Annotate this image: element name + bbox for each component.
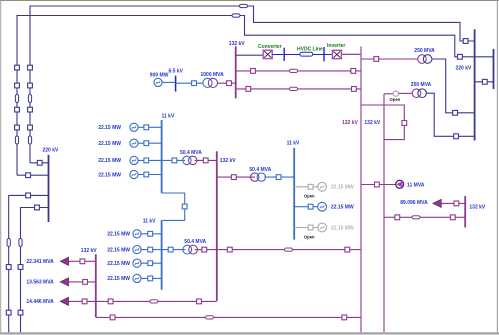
breaker line C at left 220kV bus: [26, 193, 31, 198]
svg-text:11 kV: 11 kV: [143, 218, 156, 224]
breaker bottom west: [110, 315, 115, 320]
breaker line A mid 1: [28, 107, 33, 112]
wire 220kV line D: [21, 208, 49, 333]
svg-text:22.15 MW: 22.15 MW: [107, 247, 130, 253]
svg-text:220 kV: 220 kV: [43, 148, 60, 154]
generator group1 unit 2 22.15 MW: [98, 139, 161, 147]
wire line2 to right bus: [384, 216, 465, 218]
breaker right load: [454, 201, 459, 206]
wire gen to 6.5kV bus: [162, 81, 176, 83]
bottom frame bar: [0, 332, 499, 334]
wire group1 bus to group2 bus: [162, 193, 185, 220]
breaker line B mid 2: [15, 125, 20, 130]
transformer T3 250 MVA: [412, 89, 426, 98]
wire line B to left 220kV bus: [17, 174, 49, 176]
breaker tie loop: [402, 121, 407, 126]
bus 132kV load: [95, 254, 97, 317]
svg-text:11 kV: 11 kV: [162, 114, 175, 120]
wire load bus to center bus: [96, 300, 217, 302]
generator group1 unit 3 22.15 MW: [98, 156, 161, 164]
breaker line D mid: [18, 265, 23, 270]
bus 11kV group1: [161, 120, 163, 193]
breaker gen step-up hv: [227, 81, 232, 86]
breaker T2 lv: [374, 57, 379, 62]
svg-text:Open: Open: [304, 194, 315, 199]
svg-text:Open: Open: [390, 97, 401, 102]
breaker T3 hv: [454, 134, 459, 139]
line symbol line B horizontal: [232, 14, 240, 17]
line symbol P1: [290, 69, 298, 72]
generator group2 unit 1 22.15 MW: [107, 230, 161, 238]
breaker line B at right 220kV bus: [458, 54, 463, 59]
transformer T6 50.4 MVA: [251, 173, 266, 181]
svg-text:22.15 MW: 22.15 MW: [98, 125, 121, 131]
wire T6 to 11kV bus3: [264, 176, 294, 178]
svg-text:22.15 MW: 22.15 MW: [331, 185, 354, 191]
border frame: [0, 0, 499, 2]
node HVDC right tick: [323, 47, 325, 61]
wire right bus load: [441, 202, 465, 204]
line symbol bottom: [206, 316, 214, 319]
svg-text:50.4 MVA: 50.4 MVA: [184, 239, 206, 245]
svg-text:22.15 MW: 22.15 MW: [331, 205, 354, 211]
breaker P2 left: [246, 87, 251, 92]
svg-text:132 kV: 132 kV: [220, 158, 237, 164]
wire 132kV line2 vertical: [383, 94, 385, 332]
svg-text:22.15 MW: 22.15 MW: [107, 276, 130, 282]
breaker gen step-up lv: [192, 81, 197, 86]
breaker T4 hv: [203, 158, 208, 163]
wire 220kV line C: [9, 195, 49, 332]
svg-text:Open: Open: [304, 235, 315, 240]
svg-text:13.563 MVA: 13.563 MVA: [26, 280, 54, 286]
svg-text:250 MVA: 250 MVA: [414, 48, 435, 54]
generator group3 unit3 22.15 MW open: [294, 223, 354, 232]
svg-text:220 kV: 220 kV: [456, 66, 473, 72]
generator group2 unit 2 22.15 MW: [107, 246, 161, 254]
transformer T1 1000 MVA: [203, 78, 218, 87]
line symbol load-center: [150, 300, 158, 303]
breaker T6 hv: [231, 175, 236, 180]
breaker line D at left 220kV bus: [35, 205, 40, 210]
wire 132kV parallel line P2: [236, 88, 361, 90]
line symbol line B lower: [15, 136, 18, 144]
wire T2 to 220kV bus: [432, 59, 475, 113]
svg-text:Converter: Converter: [258, 44, 282, 50]
line symbol feeder east: [285, 248, 293, 251]
bus 220kV right second: [493, 49, 495, 89]
svg-text:132 kV: 132 kV: [469, 204, 486, 210]
svg-text:HVDC Line: HVDC Line: [297, 46, 323, 52]
svg-text:22.341 MVA: 22.341 MVA: [26, 259, 54, 265]
wire load bus to line1 bottom: [96, 316, 361, 318]
svg-text:14.446 MVA: 14.446 MVA: [26, 299, 54, 305]
wire line A to left 220kV bus: [30, 162, 49, 164]
line symbol line A horizontal: [240, 4, 248, 7]
load 89.096 MVA arrow: [433, 199, 441, 207]
wire group2 bus to T5: [162, 249, 186, 251]
line symbol line C: [7, 239, 10, 247]
wire HVDC dc right: [313, 54, 333, 56]
svg-text:11 kV: 11 kV: [287, 141, 300, 147]
breaker load-center 2: [197, 299, 202, 304]
wire transformer to 132kV bus: [218, 82, 236, 84]
wire 220kV line B path: [17, 16, 494, 176]
converter U1: [263, 50, 272, 58]
transformer T4 50.4 MVA: [183, 156, 197, 164]
wire inverter to 132kV line1: [342, 53, 362, 55]
condenser 11 MVA: [396, 180, 404, 188]
svg-text:50.4 MVA: 50.4 MVA: [180, 150, 202, 156]
bus 11kV group2: [161, 220, 163, 289]
load 22.341 MVA: [26, 257, 95, 265]
svg-text:22.15 MW: 22.15 MW: [107, 261, 130, 267]
line symbol line B upper: [15, 95, 18, 103]
breaker T2 hv: [453, 110, 458, 115]
breaker P1 right: [351, 69, 356, 74]
svg-text:11 MVA: 11 MVA: [407, 182, 425, 188]
wire bus tie: [475, 81, 494, 83]
breaker line A at left 220kV bus: [37, 160, 42, 165]
generator group2 unit 3 22.15 MW: [107, 259, 161, 267]
line symbol line D: [19, 239, 22, 247]
svg-text:22.15 MW: 22.15 MW: [98, 141, 121, 147]
wire T3 to 220kV bus: [426, 93, 474, 136]
svg-text:132 kV: 132 kV: [364, 120, 381, 126]
bus 6.5 kV: [175, 76, 177, 92]
breaker P1 left: [251, 69, 256, 74]
breaker T4 lv: [172, 158, 177, 163]
breaker right feeder west: [395, 215, 400, 220]
breaker bottom east: [342, 315, 347, 320]
wire open switch to T3: [399, 92, 413, 94]
breaker T5 hv: [202, 247, 207, 252]
breaker T5 lv: [168, 247, 173, 252]
svg-text:22.15 MW: 22.15 MW: [107, 232, 130, 238]
wire bus2 to T6: [217, 176, 255, 178]
HVDC line symbol: [300, 52, 313, 56]
wire line2 to open switch: [384, 93, 393, 95]
breaker line C bottom: [6, 310, 11, 315]
load 13.563 MVA: [26, 278, 95, 286]
svg-text:250 MVA: 250 MVA: [411, 82, 432, 88]
generator group1 unit 1 22.15 MW: [98, 123, 161, 131]
transformer T2 250 MVA: [418, 55, 432, 64]
line symbol P2: [290, 87, 298, 90]
node HVDC left tick: [283, 48, 285, 61]
svg-text:132 kV: 132 kV: [342, 120, 359, 126]
svg-text:6.5 kV: 6.5 kV: [169, 69, 184, 75]
breaker line A at right 220kV bus: [463, 39, 468, 44]
bus 132kV HVDC: [235, 46, 237, 98]
wire T4 to 132kV bus2: [195, 159, 217, 161]
wire 132kV parallel line P1: [236, 70, 361, 72]
breaker 11MVA: [375, 182, 380, 187]
bus 220kV right main: [474, 29, 476, 140]
transformer T5 50.4 MVA: [183, 245, 198, 254]
wire T5 across 132kV bus2 to line1: [195, 249, 361, 251]
breaker line B at left 220kV bus: [26, 173, 31, 178]
breaker line B mid 1: [15, 107, 20, 112]
breaker line C mid: [6, 265, 11, 270]
line symbol line A lower: [28, 136, 31, 144]
right frame edge: [496, 0, 498, 333]
svg-text:50.4 MVA: 50.4 MVA: [249, 167, 271, 173]
generator group2 unit 4 22.15 MW: [107, 274, 161, 282]
open switch T3: [393, 91, 398, 96]
generator group3 unit1 22.15 MW open: [294, 182, 354, 191]
bus 132kV right: [464, 196, 466, 228]
bus 132kV center: [216, 151, 218, 301]
breaker T6 lv: [276, 175, 281, 180]
breaker line D bottom: [18, 310, 23, 315]
bus 11kV group3: [293, 148, 295, 240]
load 14.446 MVA: [26, 297, 95, 305]
svg-text:22.15 MW: 22.15 MW: [331, 225, 354, 231]
svg-text:132 kV: 132 kV: [229, 41, 246, 47]
inverter U2: [332, 50, 341, 58]
breaker line A mid 2: [28, 125, 33, 130]
wire HVDC dc left: [272, 54, 300, 56]
breaker feeder east at line1: [345, 247, 350, 252]
bus 220kV left: [48, 155, 50, 222]
wire group1 bus to T4: [162, 159, 185, 161]
generator group1 unit 4 22.15 MW: [98, 170, 161, 178]
breaker P2 right: [352, 87, 357, 92]
line symbol line A upper: [28, 95, 31, 103]
wire 220kV line A path: [30, 6, 475, 163]
wire line1 to 11MVA machine: [361, 184, 395, 186]
wire line1 to T2: [361, 58, 417, 60]
breaker line B top-left 1: [15, 65, 20, 70]
breaker line A top-left 1: [28, 65, 33, 70]
breaker line A top-left 2: [28, 83, 33, 88]
svg-text:900 MW: 900 MW: [150, 73, 169, 79]
wire HVDC ac side left: [236, 54, 263, 56]
svg-text:Inverter: Inverter: [327, 43, 345, 49]
svg-text:22.15 MW: 22.15 MW: [98, 172, 121, 178]
breaker line B top-left 2: [15, 83, 20, 88]
generator G1 900MW: [154, 78, 162, 86]
breaker right feeder east: [450, 215, 455, 220]
svg-text:132 kV: 132 kV: [81, 248, 98, 254]
breaker load-center 1: [108, 299, 113, 304]
svg-text:1000 MVA: 1000 MVA: [201, 72, 225, 78]
svg-text:89.096 MVA: 89.096 MVA: [400, 200, 428, 206]
wire 6.5kV to transformer: [176, 82, 203, 84]
wire tie loop line1-line2: [361, 105, 404, 140]
breaker 11kV tie: [182, 204, 187, 209]
line symbol right feeder: [412, 216, 420, 219]
wire 132kV line1 vertical: [360, 47, 362, 333]
breaker bus tie: [482, 79, 487, 84]
generator group3 unit2 22.15 MW: [294, 202, 354, 211]
breaker 132kV bus2 feeder east: [227, 247, 232, 252]
svg-text:22.15 MW: 22.15 MW: [98, 158, 121, 164]
